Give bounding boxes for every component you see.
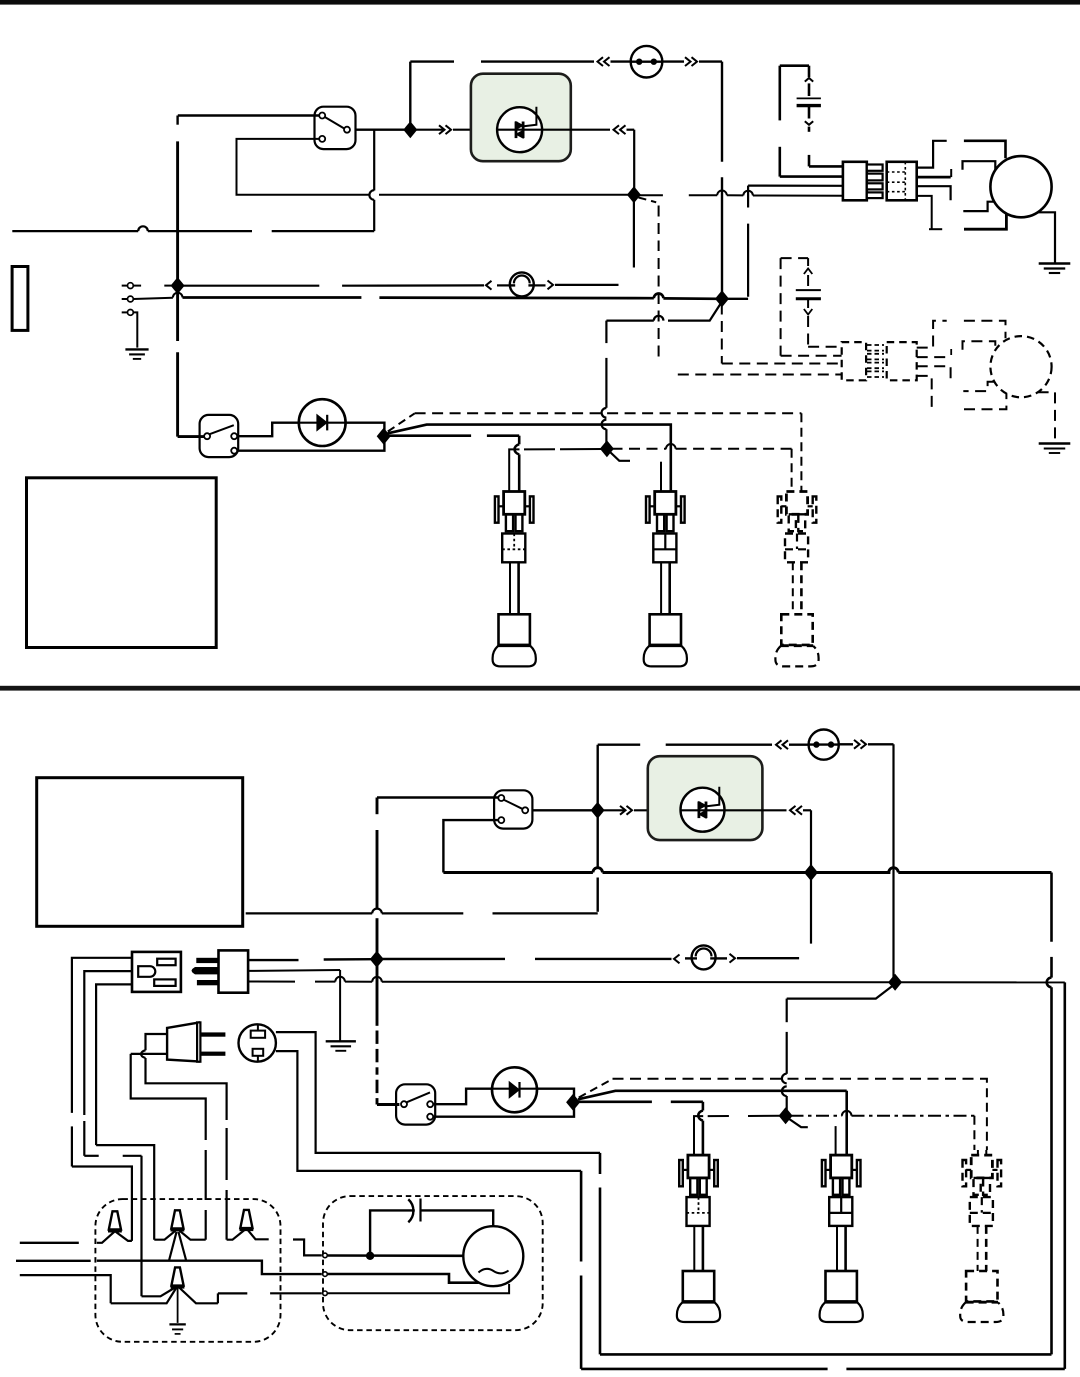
wire hop - bottom plug1 lead over y=1116.1 (698, 1111, 703, 1121)
wire - S1 lower loop (kill wire) y=195 (237, 139, 370, 195)
wire - P1 middle pin wire with hop over x=177.6 (133, 298, 173, 299)
wire - vertical x=1064.8 up to engine node wire (1064, 982, 1067, 1369)
spark plug SP6 (bottom, dashed/optional) (971, 1155, 992, 1178)
wire - charge lead y=285.7 to bullet connector (181, 285, 319, 287)
wire - plug1 return corner (694, 1116, 703, 1155)
arrow down at capacitor (805, 121, 813, 125)
wire - P1 bottom pin to ground (133, 312, 137, 347)
wire - B out row4 stub (917, 196, 932, 229)
wire hop - bus over dashed gate vertical x=658.6 (654, 293, 664, 298)
wire - T1 left stub (20, 1242, 79, 1244)
wire - engine upper lead from x=748 corner (747, 224, 749, 297)
wire - plug2 lead y=1090.8 (578, 1091, 847, 1100)
wire - U2 output down to bus (810, 810, 812, 869)
receptacle outlet face (120V) (132, 952, 181, 992)
wire - return vertical x=1051.5 (1050, 873, 1053, 942)
dashed wire - B2 row4 stub (917, 376, 932, 409)
wire - terminal1 to junction dot (328, 1254, 463, 1257)
wire - appliance plug bottom lead (131, 1053, 167, 1055)
arrow >> after 2-pin connector (685, 57, 691, 66)
ignition module U1 (top, green) (471, 74, 571, 162)
alternator/stator M1 (solid circle) (990, 156, 1051, 217)
wire - B out row3 stub (917, 186, 951, 200)
wire - S4 to diode (433, 1089, 493, 1105)
plug node diamond at (606.9,449) (600, 440, 614, 457)
wire hop - y=913 over x=377 (372, 909, 382, 914)
arrow < on charge lead (486, 281, 492, 290)
stator lead row3 (963, 202, 994, 211)
wire - vertical x=893.5 down to engine node (892, 744, 894, 978)
bus node diamond at (811,872.5) (804, 864, 818, 881)
dashed wire - B2 row2 stub (917, 356, 951, 358)
wire - P1 top pin to bus node (133, 285, 141, 287)
wire - left vertical x=177.6 upper (176, 116, 178, 125)
spark plug SP4 (bottom) (688, 1155, 709, 1178)
alternator/stator M2 (dashed circle) (990, 336, 1051, 397)
wire hop - kill wire over x=722 (717, 191, 727, 196)
wire - receptacle left leads (72, 958, 132, 1113)
wire - T2 feed from receptacle bottom lead (96, 1145, 154, 1240)
wire - T4 feed from receptacle middle lead (84, 1155, 98, 1157)
wire - S3 lower contact to bus (443, 820, 498, 872)
wire - harness top y=61.6 to 2-pin connector (410, 60, 454, 62)
wire - dashed row4 into dashed connector (678, 374, 842, 376)
wire - thick bus y=872.5 (443, 871, 593, 874)
2-pin connector J1 (top) (631, 46, 663, 78)
wire - terminal3 to generator lower-right (328, 1284, 509, 1293)
wire - vertical x=581 from socket lead (580, 1171, 583, 1262)
wire - dashed from bus node down to dashed engine row3 (721, 304, 723, 364)
node junction at (634,195) (627, 186, 641, 203)
arrow << before 2-pin connector (bottom) (776, 740, 782, 749)
wire - dashed lead y=1078.5 from key node (579, 1079, 613, 1098)
wire - up from node to harness top wire (409, 62, 411, 130)
label box (bottom section) (37, 778, 243, 927)
wire - appliance plug top lead (146, 1034, 168, 1050)
wire - T3 to generator terminal 1 (293, 1240, 322, 1256)
dashed stator row3 (963, 382, 994, 391)
generator box (dashed rounded) (323, 1196, 543, 1330)
wire - branch down from S1 output at x=374 (373, 130, 375, 191)
block B internal dotted lines (904, 162, 906, 201)
2-prong appliance plug body (167, 1023, 199, 1062)
ground symbol G2 (engine) (1039, 262, 1071, 265)
wire - diode out to key node (346, 423, 385, 432)
generator terminal pins (323, 1253, 328, 1258)
wire - plug top lead to node (248, 959, 298, 961)
dashed wire - C2 to row1 (808, 346, 842, 348)
connector block A (engine, solid) (843, 162, 867, 201)
wire - dashed return after plug node (612, 448, 667, 450)
diode D2 symbol (509, 1082, 519, 1098)
arrow < on bullet feed (674, 955, 680, 964)
wire - node to module (413, 129, 445, 131)
key switch S4 (bottom) (396, 1084, 435, 1124)
spade terminal T2 (171, 1210, 183, 1228)
wire - dashed down to plug3 right stem (800, 413, 802, 491)
power plug 3-prong body (219, 950, 249, 992)
dashed connector block A2 (842, 342, 866, 380)
wire hop - kill wire over x=748 (743, 191, 753, 196)
section separator bar (0, 686, 1080, 691)
ignition module U2 (bottom, green) (648, 756, 763, 840)
wire - vertical x=600 from socket lead (599, 1153, 602, 1174)
wire hop - dash-dot over plug2 lead (842, 1111, 852, 1116)
diode D2 circle (bottom) (492, 1067, 537, 1112)
wire - long-dash vertical x=377 (376, 798, 379, 815)
wire - dashed down to bottom plug3 left stem (973, 1116, 975, 1150)
wire hop - top lead vertical over bottom lead (141, 1050, 145, 1058)
arrow > on bullet feed (730, 954, 736, 963)
spade terminal T1 (109, 1211, 121, 1229)
wire - through module U2 (680, 809, 725, 811)
bus node diamond at (722,298.8) (715, 290, 729, 307)
wire - vertical x=786.7 down to plug node (786, 999, 788, 1023)
wire - bus node to x=748 corner (726, 298, 748, 300)
wire hop - dashed return over plug2 lead (666, 444, 676, 449)
terminal box (dashed rounded, spade terminals) (95, 1199, 280, 1342)
wire - S3 output to module node (532, 809, 593, 811)
wire - through module circle (497, 129, 542, 131)
arrow > on charge lead (548, 281, 554, 290)
arrow << at U2 output (790, 806, 796, 815)
diode D1 circle (top) (299, 399, 346, 446)
stub below bus node (810, 876, 812, 944)
key node diamond at (573.1,1102.3) (566, 1094, 580, 1111)
wire - C3 to generator top (421, 1210, 494, 1226)
wire - stator to ground (1038, 212, 1055, 262)
bullet connector B1 (top) (510, 272, 534, 296)
wire - T4 center to ground (177, 1287, 179, 1323)
wire - bottom plug2 thin stem upper (835, 1126, 837, 1155)
wire - bottom return y=1354.4 (600, 1353, 1052, 1356)
wire - capacitor to connector row1 (809, 165, 843, 168)
label box (top section) (27, 478, 217, 648)
module node diamond at (597.6,810.3) (591, 802, 605, 819)
arrow up at capacitor (805, 78, 813, 82)
wire - engine feed down-diagonal from bus node (668, 302, 722, 321)
appliance plug prongs (201, 1032, 226, 1036)
wire - S2 lower contact to key node (237, 441, 384, 451)
wire hop - bus over x=893.5 (889, 868, 899, 873)
wire - plug1 lead y=435.7 from key node (390, 434, 472, 437)
spade terminal T3 (240, 1210, 252, 1228)
dashed stator stub row2 (963, 341, 996, 350)
wire hop - x=786.7 over y=1091.6 (782, 1086, 787, 1096)
wire hop - x=1051.5 over y=982.4 (1047, 978, 1052, 988)
wire - vertical x=722 down to bus node (721, 62, 723, 162)
dashed connector block B2 (887, 342, 917, 380)
twist-lock socket face (239, 1024, 276, 1061)
junction dot in generator box (366, 1252, 374, 1260)
ground symbol G3 (dashed engine) (1039, 442, 1071, 444)
dashed connector pins (867, 344, 884, 346)
capacitor C3 branch in generator box (370, 1210, 415, 1255)
dashed wire - C2 loop to row2 (781, 355, 842, 357)
dashed wire - stator2 to ground (1038, 392, 1055, 443)
wire - label box lead y=913.4 (246, 912, 373, 914)
generator G (circle with sine) (463, 1226, 523, 1286)
wire - terminal2 to generator lower-left (328, 1274, 479, 1283)
wire - capacitor loop to connector row2 (780, 175, 843, 178)
wire - dash-dot return to plug3 (791, 1115, 843, 1117)
wire hop - neutral over x=340 (335, 977, 345, 982)
arrow >> after 2-pin connector (bottom) (854, 740, 860, 749)
wire - J1 to right vertical (661, 60, 684, 62)
plug prongs (196, 958, 218, 963)
bus corner down to generator terminal 2 (253, 1261, 322, 1274)
plug node tail stub (789, 1119, 808, 1128)
wire - plug bottom lead (neutral) long run (248, 981, 295, 983)
wire - harness top y=744.7 to 2-pin connector (598, 744, 641, 746)
wire - second return y=1368.9 (581, 1368, 828, 1371)
wire hop - neutral over x=377 (372, 977, 382, 982)
arrow << before 2-pin connector (598, 57, 604, 66)
2-pin connector J2 (bottom) (809, 730, 839, 760)
node tail stub (610, 452, 631, 461)
dashed capacitor C2 plates (796, 289, 821, 291)
capacitor C1 branch top corner (778, 66, 781, 121)
wire - S2 to diode (237, 423, 299, 437)
dashed wire - B2 row1 to stator (917, 321, 947, 348)
stator lead stub row2 (963, 161, 996, 170)
T2 long legs to bus (169, 1232, 177, 1261)
wire hop on y=231 lead (138, 226, 148, 231)
wire - bullet feed y=958.9 (381, 958, 505, 960)
wire hop - bus over x=597.6 (593, 868, 603, 873)
wire - plug1 lead y=1101.8 (579, 1101, 652, 1104)
ignition switch S3 (bottom) (494, 790, 532, 828)
wire - B out row2 stub (917, 176, 951, 179)
wire hop - x=374 vertical over y=195 wire (369, 190, 374, 200)
wire - page lead at y=231 (12, 230, 138, 232)
arrow >> into ignition module (439, 125, 445, 134)
wire hop - plug1 lead over y=449.4 (515, 444, 520, 454)
spark plug SP5 (bottom) (831, 1155, 852, 1178)
wire - plug1 return corner to plug node (509, 449, 519, 491)
connector pins P1 (3-circle connector, left) (122, 285, 128, 287)
key node diamond at (383.7,436.2) (377, 428, 391, 445)
wire - T1 feed from receptacle (72, 1167, 132, 1241)
wire hop - x=786.7 over dashed y=1078.5 (782, 1074, 787, 1084)
wire hop - x=606 over y=424.6 (602, 420, 607, 430)
ignition switch S1 (top) (315, 107, 356, 149)
engine node diamond at (895.1,982.3) (888, 974, 902, 991)
bullet connector B2 (bottom) (692, 945, 716, 969)
wire - T4 to generator terminal 3 (217, 1293, 219, 1303)
connector pins between A and B (867, 165, 883, 171)
wire - vertical x=597.6 ignition feed (597, 878, 599, 912)
dashed wire - B2 row3 stub (917, 366, 951, 380)
wire - dashed down to plug3 left stem (791, 449, 793, 492)
stator lead row4 (thick) (964, 214, 1006, 229)
connector block B (engine, solid) (887, 162, 917, 201)
wire - page lead into T4 path (20, 1275, 111, 1303)
spark plug SP3 (top, dashed/optional) (786, 492, 807, 515)
wire - plug middle lead to ground (248, 969, 340, 972)
capacitor C3 (curved plate + bar) (408, 1199, 413, 1222)
ground symbol G4 (plug) (326, 1040, 356, 1042)
wire - S4 lower contact loop (433, 1107, 574, 1117)
wire - dashed lead y=413 from key node (388, 413, 415, 431)
plug node diamond at (785.6,1115.7) (779, 1107, 793, 1124)
wire hop - x=606 over dashed y=413 (602, 408, 607, 418)
wire - engine node diagonal to plug area (787, 986, 893, 999)
ground symbol G5 (terminal box) (169, 1323, 185, 1325)
diode D1 symbol (317, 415, 327, 431)
arrow >> into bottom module (601, 809, 626, 811)
wire - plug2 thin stem upper (660, 462, 662, 492)
wire hop - engine feed over dashed x=658.6 (654, 316, 664, 321)
capacitor C1 plates (797, 97, 821, 99)
arrow << at module output (614, 125, 620, 134)
top page border bar (0, 0, 1080, 5)
spark plug SP1 (top) (504, 492, 525, 515)
bus wire inside terminal box (16, 1260, 91, 1262)
wire - D2 out to key node (537, 1089, 574, 1098)
wire - S2 feed (178, 435, 204, 438)
distribution node diamond at (376.8,959.2) (370, 951, 384, 968)
wire - socket bottom lead (276, 1051, 581, 1171)
bus node diamond at (177.6,285.6) (171, 277, 185, 294)
dashed capacitor C2 branch (780, 258, 782, 356)
wire - module output (542, 129, 610, 131)
wire - module output stub below node (633, 198, 635, 268)
wire - socket top lead (276, 1032, 600, 1153)
wire - B out row1 to stator lead (917, 141, 947, 168)
ground symbol G1 (left) (125, 348, 148, 350)
wire - vertical x=606.4 down to plug node (605, 321, 607, 344)
spade terminal T4 (ground) (171, 1267, 183, 1285)
dashed stator row4 (964, 394, 1006, 409)
wire - module output corner down x=634 (633, 130, 635, 192)
wire - plug2 lead y=424.6 (388, 425, 666, 434)
wire - dashed gate wire from node (634,195) to dashed harness (639, 198, 657, 203)
spark plug SP2 (top) (655, 492, 676, 515)
wire - S1 feed from left vertical (178, 114, 319, 116)
battery/label rectangle (top-left small) (12, 267, 28, 331)
node junction at (410,130) (403, 121, 417, 138)
wire - S1 output to node (356, 128, 407, 130)
wire - S3 feed from x=377 (377, 796, 498, 798)
key switch S2 (top) (200, 415, 239, 457)
wire - left vertical x=177.6 lower to key switch (176, 289, 179, 341)
